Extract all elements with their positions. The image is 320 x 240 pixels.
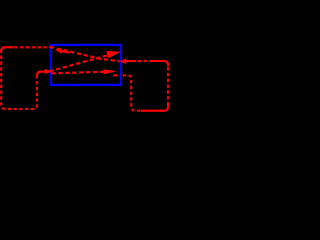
solid runs of right region outline	[125, 60, 136, 62]
wire: near-horizontal dashed line to mid-right	[52, 72, 106, 74]
left dashed red region (open rounded path)	[1, 47, 52, 109]
solid elbow before left-region arrowhead	[37, 72, 45, 78]
arrowhead into blue box from left region	[45, 69, 52, 75]
wire: dashed rising diagonal from left entry to upper right	[50, 54, 111, 71]
wire: dashed diagonal from top-left entry down to right edge	[50, 47, 120, 62]
inner stub dash of right region reaching into blue box	[113, 74, 117, 76]
arrowhead into blue box from right region	[120, 58, 127, 64]
solid start of left region top edge	[1, 47, 13, 51]
arrowhead pointing right mid-right	[103, 69, 116, 74]
right dashed red region (open rounded path)	[123, 61, 168, 111]
big arrowhead pointing right at upper right	[106, 51, 120, 58]
arrowhead pointing up-left on that diagonal	[55, 49, 62, 54]
blue box (solid blue rectangle, center)	[51, 45, 121, 85]
